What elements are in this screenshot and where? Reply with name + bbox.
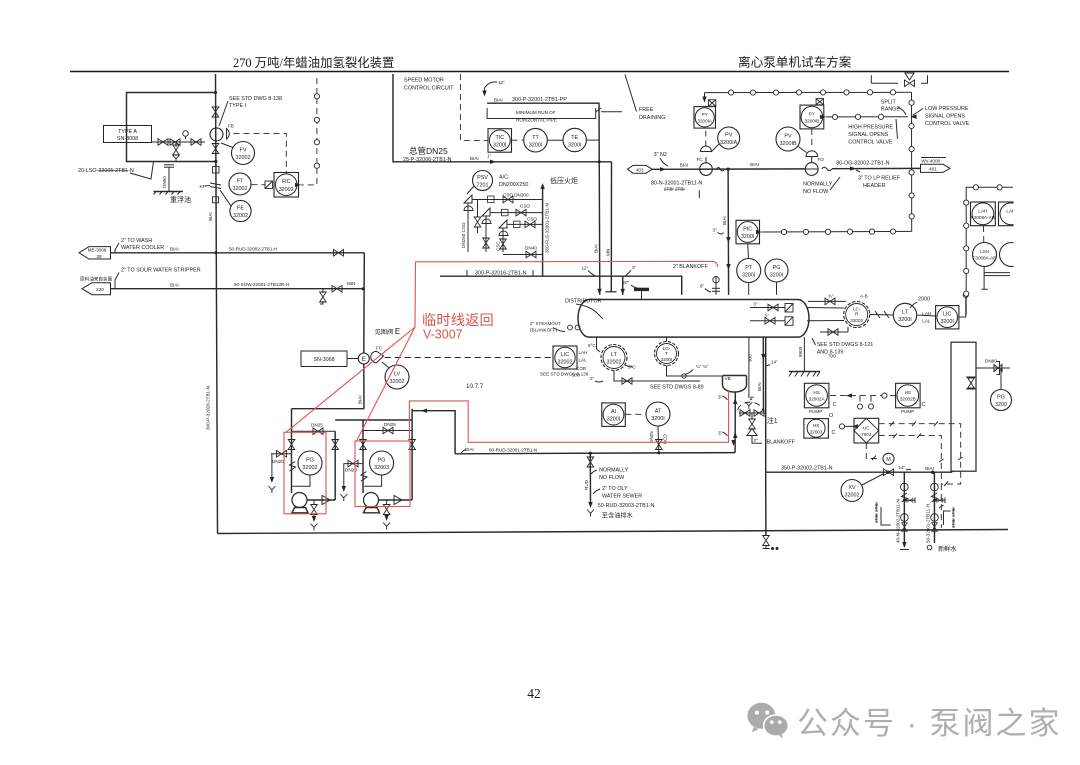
standpipe column [951,342,976,471]
flex + OG relief line [822,167,832,171]
svg-text:AT: AT [655,409,662,415]
svg-text:RUD: RUD [584,479,589,490]
relief angle valve 1 [464,195,472,207]
svg-text:40-N-32002-2TB11-N: 40-N-32002-2TB11-N [896,499,901,543]
svg-text:MN: MN [606,249,611,256]
svg-text:3200IB: 3200IB [779,141,796,147]
svg-text:DN20: DN20 [272,459,284,464]
svg-text:注1: 注1 [767,416,778,425]
svg-text:700: 700 [828,354,836,359]
svg-text:32002: 32002 [845,493,860,499]
PY-B drop to valve [811,129,813,149]
svg-text:32003: 32003 [810,430,823,435]
instrument TE-3200I [563,128,586,151]
svg-text:2TBI 2TBI: 2TBI 2TBI [664,187,685,192]
svg-text:DN25: DN25 [649,431,654,443]
red return path to vessel [409,391,728,442]
svg-text:14": 14" [771,360,778,365]
svg-text:SEE STD DWG 8-138: SEE STD DWG 8-138 [229,96,282,102]
svg-text:低压火炬: 低压火炬 [550,176,578,185]
svg-text:3200I: 3200I [742,273,756,279]
svg-text:BIAI: BIAI [750,162,759,167]
instrument LIC-3200I [936,306,959,329]
svg-text:3": 3" [632,265,637,270]
svg-text:42: 42 [527,686,541,701]
svg-text:2" STEAMOUT: 2" STEAMOUT [530,321,561,326]
svg-text:80-RUD-32001-2TB1-N: 80-RUD-32001-2TB1-N [489,448,537,453]
valve row on loop bottom-left [158,139,168,146]
svg-text:LAL: LAL [922,319,931,324]
svg-text:NORMALLY: NORMALLY [599,468,629,474]
flex hose symbol [716,167,724,171]
SN-3068 box [301,351,347,367]
svg-text:NO FLOW: NO FLOW [803,189,829,195]
valve on pump1 left leg [288,440,295,450]
diagram left border / main vertical line [216,74,218,534]
svg-text:LSH: LSH [980,249,989,254]
svg-text:CONTROL CIRCUIT: CONTROL CIRCUIT [404,86,454,92]
instrument TIC-3200I [488,129,512,153]
svg-text:BIAI: BIAI [494,98,503,103]
svg-text:CSO: CSO [520,204,530,209]
DN20 drain stub pump1 [271,453,292,455]
earth/ground under vessel [803,337,805,371]
instrument LT-3200I [893,303,916,326]
top-left recycle loop wire [127,93,217,162]
instrument LIC-32002 [553,346,577,369]
signal column with circles to FIC [301,78,317,185]
end of 80-RUD line riser to VB pot [734,392,736,453]
PIC riser to vessel [727,169,730,295]
svg-text:XV: XV [848,485,856,491]
svg-text:CSO DN300: CSO DN300 [503,193,529,198]
svg-text:BIAI: BIAI [470,156,479,161]
instrument PV-3200IA [718,127,740,149]
svg-text:SEE STD DWGS 8-121: SEE STD DWGS 8-121 [817,342,874,348]
svg-text:SIGNAL OPENS: SIGNAL OPENS [925,114,965,120]
svg-text:COR: COR [576,366,587,371]
svg-text:F3008A-AB: F3008A-AB [973,256,997,261]
line to VB pot [667,366,723,377]
svg-text:DRAINING: DRAINING [639,115,665,121]
svg-text:DN200X250: DN200X250 [499,182,528,188]
svg-text:32003: 32003 [374,465,389,471]
junction DN25 header x main riser [598,160,601,163]
svg-text:1": 1" [487,154,492,159]
blankoff drop with valves [738,402,763,410]
hand switch HS-32002B [896,383,921,408]
svg-text:¾": ¾" [828,294,834,299]
svg-text:LIC: LIC [561,352,569,358]
junction N2 x PIC riser [726,168,729,171]
watermark wechat icon [747,703,788,739]
header rule [70,71,1009,73]
alarm column signal line [966,187,1013,315]
svg-text:32002: 32002 [233,186,248,192]
svg-text:LT: LT [902,310,909,316]
pump 1 [292,493,307,508]
svg-text:DN40: DN40 [525,246,537,251]
svg-text:3200I: 3200I [661,357,673,362]
svg-text:2" TO SOUR WATER STRIPPER: 2" TO SOUR WATER STRIPPER [121,268,201,274]
svg-text:3200I: 3200I [898,317,912,323]
valve above pump [212,107,219,117]
svg-text:新鲜水: 新鲜水 [938,545,957,553]
svg-text:300-P-32001-2TB1-PP: 300-P-32001-2TB1-PP [512,97,567,103]
valve XV-32002 [841,480,863,502]
svg-text:RANGE: RANGE [881,107,901,113]
globe valve with FC actuator on N2 line [700,163,713,176]
svg-text:T: T [665,351,668,356]
svg-text:KF: KF [200,184,206,189]
svg-text:SPEED MOTOR: SPEED MOTOR [404,78,444,84]
svg-text:PIC: PIC [743,227,752,233]
flag WV-4008 [921,164,951,172]
Z spec break pump2 [361,472,367,482]
svg-text:3": 3" [718,431,723,436]
svg-text:3200I: 3200I [651,416,665,422]
upper tap line with 3/4 valve [808,300,846,302]
white clip beyond scan edge [1014,74,1080,564]
svg-text:LAH: LAH [978,209,987,214]
svg-text:2": 2" [753,438,758,443]
svg-text:DISTRIBUTOR: DISTRIBUTOR [565,299,602,305]
svg-text:NORMALLY: NORMALLY [803,182,833,188]
pump2 right leg [411,409,413,500]
svg-text:V-3007: V-3007 [423,328,463,342]
svg-text:BIAI: BIAI [170,282,179,287]
N2 line to header [652,168,805,170]
Z spec break pump1 [290,462,296,472]
svg-text:DN25: DN25 [384,422,396,427]
vessel internal nozzles right [750,307,785,309]
svg-text:PT: PT [745,265,753,271]
instrument PV-3200IB [776,127,800,151]
instrument LT-32002 displacer [601,345,627,371]
hand valve E circle [358,353,369,364]
svg-text:C: C [832,430,836,436]
svg-text:32002: 32002 [236,155,251,161]
svg-text:3200I: 3200I [607,417,621,423]
svg-text:HORIZONTAL PIPE: HORIZONTAL PIPE [516,118,557,123]
TYPE A SN-3008 box [104,126,152,143]
hand switch HS-32002A [804,383,829,408]
svg-text:FV: FV [240,148,247,154]
svg-text:PSV: PSV [477,175,488,181]
svg-text:3200IB: 3200IB [805,119,820,124]
svg-text:BIAI: BIAI [465,447,474,452]
svg-text:12": 12" [498,80,505,85]
svg-text:BIAI: BIAI [757,382,762,391]
electric signal loops right of UC [879,424,961,484]
wires TIC-TT-TE [512,139,524,141]
bottom border line of diagram [218,530,1009,534]
svg-text:350-P-32002-2TB1-N: 350-P-32002-2TB1-N [781,466,833,472]
svg-text:2": 2" [750,396,755,401]
svg-text:3200I: 3200I [568,143,582,149]
svg-text:2" BLANKOFF: 2" BLANKOFF [673,264,709,270]
svg-text:SN-3068: SN-3068 [313,357,334,363]
svg-text:2" TO WASH: 2" TO WASH [121,238,152,244]
fresh water riser 1 [903,472,905,546]
svg-text:3200: 3200 [995,402,1007,408]
stub valve below sour line [322,289,324,293]
svg-text:3200I: 3200I [741,234,755,240]
instrument PIC-3200I [736,220,760,244]
svg-text:至含油排水: 至含油排水 [602,512,634,520]
N2 riser to vessel [610,162,612,292]
drain funnel under valve row [175,142,177,147]
gauge PG-32002 [298,451,322,475]
svg-text:50-RUD-32002-2TB1-H: 50-RUD-32002-2TB1-H [229,247,277,252]
check valve pump1 [322,496,330,505]
drain pump1 [313,500,315,504]
svg-text:HS: HS [813,390,819,395]
svg-text:403: 403 [636,168,644,173]
svg-text:C: C [922,402,926,408]
square tag left of FIC [265,181,273,189]
svg-text:WATER SEWER: WATER SEWER [602,494,642,500]
svg-text:VB: VB [725,376,731,381]
svg-text:32002: 32002 [233,213,248,219]
svg-text:公众号 · 泵阀之家: 公众号 · 泵阀之家 [797,706,1062,741]
instrument LC-R-32002 [844,302,870,328]
svg-text:TT: TT [532,135,539,141]
svg-text:FB: FB [228,124,234,129]
svg-text:3200I: 3200I [940,319,954,325]
relief manifold drops [468,207,503,252]
svg-text:SEE STD DWGS 8-139: SEE STD DWGS 8-139 [540,372,589,377]
svg-text:O: O [829,413,833,419]
free draining stub [601,111,622,113]
svg-text:TIC: TIC [495,135,504,141]
pump P circle on main line [210,128,223,141]
svg-text:50-RUD-32003-2TB1-N: 50-RUD-32003-2TB1-N [598,503,655,509]
svg-text:PY: PY [809,112,815,117]
switch LSH second (clipped) [1000,243,1024,267]
instrument AT-3200I [646,402,670,426]
gauge PG-3200 right [991,390,1012,411]
svg-text:PG: PG [997,395,1005,401]
svg-text:原料油来自装置: 原料油来自装置 [80,276,113,283]
svg-text:32002: 32002 [390,379,405,385]
pump1 left leg [291,409,293,493]
svg-text:7002: 7002 [861,432,872,437]
svg-text:10.7.7: 10.7.7 [466,383,484,390]
svg-text:TE: TE [571,135,578,141]
signal line C to PIC [762,230,912,233]
globe valve F on OG line [805,163,818,176]
svg-text:3200IA: 3200IA [720,140,737,146]
svg-text:R: R [855,312,859,317]
svg-text:220: 220 [96,287,104,292]
vessel bottom boot lines [748,337,750,398]
svg-text:MIN: MIN [347,281,355,286]
controller UC-7002 [854,418,879,443]
svg-text:3": 3" [764,314,769,319]
oily water drain branch [589,453,591,502]
DN25 bypass pump2 [363,430,412,432]
svg-text:FO: FO [818,157,825,162]
svg-text:80-OG-32002-2TB1-N: 80-OG-32002-2TB1-N [836,161,889,167]
svg-text:TYPE I: TYPE I [229,103,246,109]
svg-text:50-SOW-32001-2TB13R-H: 50-SOW-32001-2TB13R-H [234,282,289,287]
svg-text:32002: 32002 [279,187,294,193]
pump unit 1 suction header [292,408,365,410]
svg-text:WATER COOLER: WATER COOLER [121,245,164,251]
relief valve PSV-7201 [473,171,493,191]
svg-text:UC: UC [863,426,870,431]
svg-text:3" TO LP RELIEF: 3" TO LP RELIEF [858,176,901,182]
svg-text:M: M [886,457,891,463]
pump2 discharge bottom line [379,499,413,501]
instrument FIC-32002 [274,173,299,198]
svg-text:50-32001-2TB11-H: 50-32001-2TB11-H [926,504,931,543]
svg-text:C: C [833,402,837,408]
svg-text:LAL: LAL [579,358,588,363]
signal dashes from FB to FIC [234,134,287,172]
svg-text:TYPE A: TYPE A [118,129,137,135]
svg-text:32002: 32002 [607,360,622,366]
signal dashes E to LIC-32002 [385,357,553,359]
svg-text:5°C: 5°C [588,343,596,348]
pump1 discharge bottom line [307,499,335,501]
flag ME-3008/39 to wash water cooler [79,247,111,259]
fresh water riser 2 [933,472,935,543]
instrument PY-3200IB [816,99,823,105]
svg-text:3": 3" [713,228,718,233]
switch LSH-F3008A-AB [973,243,997,267]
motor M [866,443,881,459]
svg-text:39: 39 [96,254,102,259]
svg-text:8900: 8900 [798,346,803,357]
pump FB semicircle [227,129,230,139]
svg-text:DN25: DN25 [311,423,323,428]
svg-text:BIAI: BIAI [358,395,363,404]
svg-text:HS: HS [813,423,819,428]
DN20 drain stub pump2 [343,463,363,465]
svg-text:401: 401 [929,167,937,172]
svg-text:270 万吨/年蜡油加氢裂化装置: 270 万吨/年蜡油加氢裂化装置 [233,55,394,70]
svg-text:A-B: A-B [860,294,868,299]
svg-text:PUMP: PUMP [901,409,914,414]
signal HS-A to HS-B [830,395,896,397]
hand switch HS-32003 [804,419,829,439]
arrow on DN25 header [490,160,496,164]
svg-text:3": 3" [718,395,723,400]
svg-text:20-LSO-32005-2TB1-N: 20-LSO-32005-2TB1-N [78,168,134,174]
14 inch line continues to drain below border [765,472,767,536]
svg-text:¼" ¾": ¼" ¾" [696,364,709,369]
svg-text:LV: LV [394,372,401,378]
level tap T-bar [606,291,617,293]
signal line A with circles [705,91,912,93]
instrument PY-3200IA [708,100,715,106]
red temporary line top [416,261,718,267]
svg-text:SN-3008: SN-3008 [117,136,138,142]
svg-text:DN80: DN80 [985,359,997,364]
svg-text:32002A: 32002A [809,397,826,402]
instrument PG-3200I on vessel [765,259,788,282]
LIC to signal column [959,298,966,317]
svg-text:PY: PY [702,112,708,117]
svg-text:LT: LT [611,352,618,358]
svg-text:见图阀 E: 见图阀 E [375,327,401,336]
svg-text:HEADER: HEADER [863,183,886,189]
column valve stub [968,378,975,388]
alarm LAH second (clipped) [999,202,1024,226]
svg-text:PG: PG [378,458,386,464]
DN25 bypass pump1 [292,430,336,432]
svg-text:LAH: LAH [579,350,588,355]
svg-text:E: E [362,356,366,363]
vessel V-3007 shell [589,300,798,338]
svg-text:PG: PG [306,458,314,464]
svg-text:ME-3008: ME-3008 [88,248,107,253]
svg-text:BIAI: BIAI [170,247,179,252]
speed motor control circuit border [393,74,612,162]
svg-text:BIAI: BIAI [208,212,213,221]
red highlight box pump2 [355,441,410,507]
svg-text:FREE: FREE [639,107,654,113]
relief angle valve 2 [482,208,490,220]
settling pit symbol [164,164,174,166]
drain pump2 [386,500,388,504]
svg-text:总管DN25: 总管DN25 [409,146,448,156]
svg-text:3200I: 3200I [493,143,507,149]
svg-text:SPLIT: SPLIT [881,100,897,106]
instrument TT-3200I [524,128,548,152]
svg-text:FT: FT [237,179,244,185]
svg-text:BIAI: BIAI [594,244,599,253]
svg-text:HS: HS [905,390,911,395]
pump 2 [364,493,379,508]
svg-text:32002: 32002 [303,465,318,471]
14 inch line down to 350-P header [765,337,767,472]
svg-text:FC: FC [376,346,383,351]
gauge PG-32003 [370,451,394,475]
svg-text:32002: 32002 [558,360,573,366]
svg-text:CSO: CSO [527,217,537,222]
svg-text:2000: 2000 [918,297,930,303]
vent pot VB [723,376,747,393]
svg-text:HIGH PRESSURE: HIGH PRESSURE [848,125,893,131]
pump unit 2 suction header [335,419,412,421]
svg-text:DN250 CSO: DN250 CSO [461,222,466,248]
dashed signal drop to border right [940,484,942,528]
svg-text:32002B: 32002B [900,397,916,402]
svg-text:NO FLOW: NO FLOW [599,475,625,481]
dashed circuit wire [460,74,487,141]
80-RUD-32001 return line [455,453,735,454]
flare header riser [542,185,544,276]
dashes FT to FIC [252,184,266,186]
signal column B [911,92,913,231]
pump1 right leg [334,431,336,500]
svg-text:12": 12" [582,266,589,271]
check valve pump2 [394,496,402,505]
instrument LV-32002 [385,365,409,389]
instrument LG-3200I gauge glass [655,342,679,366]
svg-text:SIGNAL OPENS: SIGNAL OPENS [848,132,888,138]
svg-text:32002: 32002 [850,318,863,323]
instrument PT-3200I on vessel [737,259,761,283]
svg-text:MINIMUM RUN OF: MINIMUM RUN OF [516,110,556,115]
svg-text:2" TO OLY: 2" TO OLY [602,486,628,492]
instrument FE-32002 [230,200,251,221]
signal line D [826,116,908,118]
svg-text:3200IA: 3200IA [697,119,712,124]
